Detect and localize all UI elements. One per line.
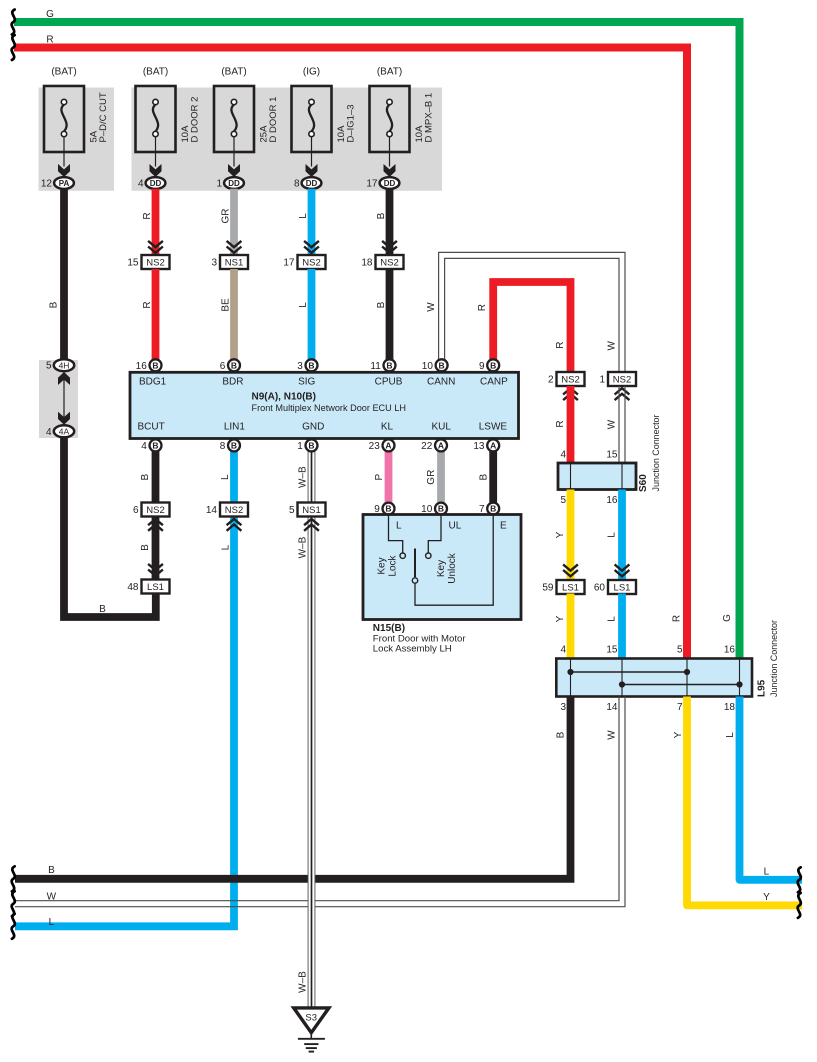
svg-text:L: L [298,213,309,219]
label W to S60 [607,419,618,429]
svg-text:W–B: W–B [298,971,309,993]
label L lower [298,302,309,308]
wire R NS2 to S60 [567,386,575,463]
wire R fuse to NS2 [152,189,160,255]
wire B 4A to LS1 [64,437,156,617]
svg-text:13: 13 [473,441,485,452]
label LIN1 [224,422,246,433]
label S60 [638,474,649,492]
svg-text:6: 6 [220,361,226,372]
label B lswe [479,474,490,481]
pin 5 S60 [560,495,566,506]
svg-text:(BAT): (BAT) [143,67,168,78]
label Y edge right [763,892,770,903]
wire R CANP riser [493,282,570,372]
svg-text:R: R [142,212,153,219]
connector 2 NS2 [548,372,585,386]
svg-text:PA: PA [59,179,70,188]
wire G main [14,22,740,661]
svg-text:9: 9 [479,361,485,372]
label B out [556,731,567,738]
label R upper [142,212,153,219]
label W riser [426,302,437,312]
svg-text:W: W [607,730,618,740]
svg-text:R: R [46,34,53,45]
connector 14 NS2 [206,503,248,517]
svg-text:3: 3 [297,361,303,372]
svg-text:Lock: Lock [388,554,399,576]
connector 3 NS1 [211,255,248,269]
fuse 5A P–D/C CUT [44,86,84,177]
label Y mid [555,615,566,622]
svg-text:48: 48 [127,582,139,593]
svg-text:BDG1: BDG1 [139,377,167,388]
pin 3 L95 [560,702,566,713]
wire B bus [15,697,571,879]
label Key Lock [377,554,399,576]
connector 4H-4A panel [39,360,78,438]
svg-text:4: 4 [560,450,566,461]
svg-text:P: P [374,474,385,481]
svg-text:BDR: BDR [222,377,243,388]
svg-text:B: B [386,360,392,370]
svg-text:8: 8 [220,441,226,452]
svg-text:L: L [221,544,232,550]
svg-text:L: L [298,302,309,308]
fuse name D–IG1–3 [346,104,357,142]
label R riser [477,304,488,311]
label P kl [374,474,385,481]
svg-text:CANN: CANN [427,377,455,388]
chevrons into 18 NS2 [382,241,397,253]
label B bcut low [140,544,151,551]
pin 4 B BCUT [141,439,161,452]
break symbol W edge [12,891,15,916]
svg-text:BCUT: BCUT [137,422,164,433]
svg-text:R: R [555,420,566,427]
svg-text:B: B [231,440,237,450]
svg-text:1: 1 [216,179,222,190]
svg-text:1: 1 [297,441,303,452]
fuse name D DOOR 2 [190,97,201,143]
svg-text:NS2: NS2 [146,257,164,268]
svg-text:R: R [555,342,566,349]
label GND [302,422,324,433]
svg-text:Junction Connector: Junction Connector [651,415,662,492]
label BCUT [137,422,164,433]
fuse value 5A [89,130,100,142]
connector 12 PA [41,177,74,189]
label (IG) [303,67,320,78]
fuse 10A D MPX–B 1 [370,86,410,177]
label B upper [376,212,387,219]
svg-text:17: 17 [283,258,295,269]
fuse value 10A [180,125,191,143]
wire B NS2 to LS1 [152,517,160,581]
svg-text:SIG: SIG [298,377,315,388]
svg-text:4H: 4H [59,360,70,370]
label L95 Junction Connector [769,620,780,697]
wire GR KUL [437,451,445,503]
svg-text:(BAT): (BAT) [221,67,246,78]
svg-text:NS2: NS2 [302,257,320,268]
pin 23 A KL [369,439,395,452]
wire B NS2 to ECU [386,269,394,360]
label KL [381,422,394,433]
svg-text:L: L [396,521,402,532]
svg-text:5: 5 [677,645,683,656]
connector 1 DD [216,177,243,189]
chevrons below 2 NS2 [563,388,578,400]
connector 17 DD [366,177,399,189]
label B bcut [140,474,151,481]
svg-text:B: B [490,360,496,370]
fuse value 10A [336,125,347,143]
pin 9 B N15 [374,503,394,515]
svg-text:R: R [142,301,153,308]
pin label UL N15 [449,521,462,532]
wire B PA to 4H [60,189,68,360]
connector 15 NS2 [127,255,169,269]
svg-text:4: 4 [560,645,566,656]
svg-text:L: L [764,867,770,878]
label L95 [757,679,768,697]
wire Y out [687,697,802,906]
svg-text:CANP: CANP [480,377,508,388]
svg-text:B: B [438,504,444,514]
wire W-B GND [308,451,316,1008]
svg-text:W: W [607,419,618,429]
label B col1 [49,301,60,308]
svg-text:14: 14 [606,702,618,713]
wire W bus [15,697,625,907]
svg-text:15: 15 [606,645,618,656]
wire Y S60 to LS1 [567,490,575,581]
label L upper [298,213,309,219]
svg-text:S3: S3 [305,1013,317,1024]
label R to S60 [555,420,566,427]
pin 14 L95 [606,702,618,713]
chevrons below 6 NS2 [148,519,163,531]
svg-text:LS1: LS1 [147,582,164,593]
wire L fuse to NS2 [308,189,316,255]
svg-text:17: 17 [366,179,378,190]
break symbol G [12,10,15,35]
label W ns2col [607,341,618,351]
chevrons below 14 NS2 [227,519,242,531]
svg-text:NS2: NS2 [146,505,164,516]
connector 4 4A [46,425,74,438]
label N15(B) [373,623,405,634]
chevrons into 48 LS1 [148,564,163,576]
wire R main [14,48,687,661]
svg-text:KL: KL [381,422,394,433]
break symbol B edge [12,866,15,891]
svg-text:E: E [500,521,507,532]
wire L out [740,697,803,880]
label BE lower [221,298,232,312]
svg-text:BE: BE [221,298,232,312]
svg-text:DD: DD [228,179,240,188]
pin 3 B SIG [297,359,317,372]
svg-text:L: L [607,532,618,538]
label N9(A), N10(B) [252,392,316,403]
break symbol L right [798,867,801,892]
label CANN [427,377,455,388]
svg-text:15: 15 [606,450,618,461]
svg-text:CPUB: CPUB [375,377,403,388]
label W edge [47,892,57,903]
label (BAT) [377,67,402,78]
svg-text:11: 11 [370,361,381,372]
svg-text:B: B [308,360,314,370]
svg-text:A: A [385,440,391,450]
svg-text:L: L [725,732,736,738]
pin 7 L95 [677,702,683,713]
connector 60 LS1 [594,580,636,594]
label (BAT) [221,67,246,78]
pin 10 B N15 [421,503,447,515]
connector 17 NS2 [283,255,325,269]
svg-text:W: W [47,892,57,903]
label Y upper [555,531,566,538]
svg-text:2: 2 [548,375,554,386]
svg-text:GR: GR [426,470,437,485]
fuse 10A D–IG1–3 [292,86,332,177]
svg-text:(BAT): (BAT) [377,67,402,78]
svg-text:B: B [308,440,314,450]
label Key Unlock [436,552,458,584]
svg-text:B: B [479,474,490,481]
svg-text:12: 12 [41,179,53,190]
svg-text:GND: GND [302,422,324,433]
svg-text:B: B [490,504,496,514]
svg-text:NS2: NS2 [225,505,243,516]
chevrons below 5 NS1 [304,519,319,531]
svg-text:G: G [722,614,733,622]
chevrons into 3 NS1 [227,241,242,253]
label (BAT) [143,67,168,78]
svg-text:Y: Y [673,731,684,738]
svg-text:60: 60 [594,583,606,594]
svg-text:B: B [152,440,158,450]
wire GR fuse to NS1 [230,189,238,255]
connector 5 4H [46,359,74,372]
svg-text:D MPX–B 1: D MPX–B 1 [424,93,435,143]
pin 8 B LIN1 [220,439,240,452]
svg-text:L: L [49,917,55,928]
svg-text:NS2: NS2 [380,257,398,268]
svg-text:22: 22 [421,441,433,452]
label L mid [607,616,618,622]
ECU N9 N10 box [130,372,519,438]
pin 4 S60 [560,450,566,461]
svg-text:N9(A), N10(B): N9(A), N10(B) [252,392,316,403]
chevrons into 59 LS1 [563,564,578,576]
component N15 box [363,515,521,620]
svg-text:R: R [477,304,488,311]
fuse 25A D DOOR 1 [214,86,254,177]
svg-text:(BAT): (BAT) [51,67,76,78]
label GR upper [221,209,232,224]
fuse value 25A [259,125,270,143]
svg-text:Key: Key [436,560,447,577]
svg-text:3: 3 [211,258,217,269]
connector 1 NS2 [599,372,636,386]
label W-B gnd low [298,536,309,558]
key unlock contact [426,515,441,559]
svg-text:W–B: W–B [298,466,309,488]
label L upper [607,532,618,538]
svg-text:KUL: KUL [431,422,451,433]
svg-text:23: 23 [369,441,381,452]
wire B LSWE [489,451,497,503]
pin 7 B N15 [479,503,499,515]
label G [46,9,54,20]
pin 11 B CPUB [370,359,395,372]
svg-text:3: 3 [560,702,566,713]
label W-B gnd bottom [298,971,309,993]
svg-text:15: 15 [127,258,139,269]
svg-text:B: B [140,474,151,481]
wire L NS2 to ECU [308,269,316,360]
label S60 Junction Connector [651,415,662,492]
fuse name D DOOR 1 [268,97,279,143]
svg-text:B: B [439,360,445,370]
svg-text:18: 18 [724,702,736,713]
label L lin1 low [221,544,232,550]
label BDG1 [139,377,167,388]
break symbol L edge [12,914,15,939]
svg-text:L: L [607,616,618,622]
svg-text:A: A [490,440,496,450]
label LSWE [479,422,508,433]
svg-text:16: 16 [606,495,618,506]
svg-text:(IG): (IG) [303,67,320,78]
connector 59 LS1 [542,580,584,594]
label L edge right [764,867,770,878]
svg-text:Y: Y [555,615,566,622]
svg-text:DD: DD [306,179,318,188]
label SIG [298,377,315,388]
svg-text:B: B [49,301,60,308]
svg-text:W: W [607,341,618,351]
label R main [672,615,683,622]
connector 4 DD [138,177,165,189]
svg-text:B: B [376,301,387,308]
svg-text:4: 4 [141,441,147,452]
wire R NS2 to ECU [152,269,160,360]
svg-text:5: 5 [46,361,52,372]
ground S3 [294,1008,329,1052]
switch lever and common [412,515,493,606]
svg-text:10: 10 [422,361,434,372]
fuse name D MPX–B 1 [424,93,435,143]
fuse block panel left [39,88,115,191]
pin 13 A LSWE [473,439,499,452]
label L out [725,732,736,738]
pin 10 B CANN [422,359,448,372]
svg-text:NS2: NS2 [561,374,579,385]
pin 5 L95 [677,645,683,656]
chevrons into 15 NS2 [148,241,163,253]
label CPUB [375,377,403,388]
svg-text:4: 4 [138,179,144,190]
pin 16 L95 [724,645,736,656]
label B lower [376,301,387,308]
svg-text:N15(B): N15(B) [373,623,405,634]
label L edge [49,917,55,928]
pin 18 L95 [724,702,736,713]
svg-text:Junction Connector: Junction Connector [769,620,780,697]
label R [46,34,53,45]
chevrons below 1 NS2 [615,388,630,400]
svg-text:DD: DD [384,179,396,188]
svg-text:B: B [152,360,158,370]
wire B BCUT [152,451,160,504]
svg-text:5: 5 [560,495,566,506]
wire P KL [385,451,393,503]
svg-text:Lock Assembly LH: Lock Assembly LH [373,644,452,655]
svg-text:Key: Key [377,557,388,574]
wire L LIN1 [15,451,234,926]
svg-text:LIN1: LIN1 [224,422,246,433]
svg-text:G: G [46,9,54,20]
svg-text:16: 16 [724,645,736,656]
link arrow 4H-4A [58,372,70,425]
svg-text:4A: 4A [59,426,70,436]
svg-text:Front Multiplex Network Door E: Front Multiplex Network Door ECU LH [252,403,407,414]
svg-text:D–IG1–3: D–IG1–3 [346,104,357,142]
svg-text:B: B [48,865,55,876]
svg-text:LSWE: LSWE [479,422,508,433]
wire L S60 to LS1 [618,490,626,581]
junction connector L95 [556,659,752,697]
svg-text:W–B: W–B [298,536,309,558]
svg-text:L: L [220,474,231,480]
svg-text:B: B [556,731,567,738]
wire W CANN riser [439,252,625,372]
svg-text:A: A [438,440,444,450]
break symbol R [12,35,15,60]
svg-text:B: B [231,360,237,370]
label W out [607,730,618,740]
wire Y LS1 to L95 [567,594,575,659]
label Y out [673,731,684,738]
fuse block panel right [132,88,443,191]
pin 15 L95 [606,645,618,656]
svg-text:NS1: NS1 [302,505,320,516]
svg-text:59: 59 [542,583,554,594]
fuse 10A D DOOR 2 [136,86,176,177]
label R ns2col [555,342,566,349]
label R lower [142,301,153,308]
svg-text:D DOOR 1: D DOOR 1 [268,97,279,143]
svg-text:LS1: LS1 [562,582,579,593]
chevrons into 17 NS2 [304,241,319,253]
wire W NS2 to S60 [619,386,625,463]
label L lin1 [220,474,231,480]
label CANP [480,377,508,388]
pin 22 A KUL [421,439,447,452]
label ECU name [252,403,407,414]
connector 8 DD [294,177,321,189]
pin 1 B GND [297,439,317,452]
connector 48 LS1 [127,580,169,594]
label B corner [99,604,106,615]
svg-text:1: 1 [599,375,605,386]
connector 6 NS2 [133,503,170,517]
